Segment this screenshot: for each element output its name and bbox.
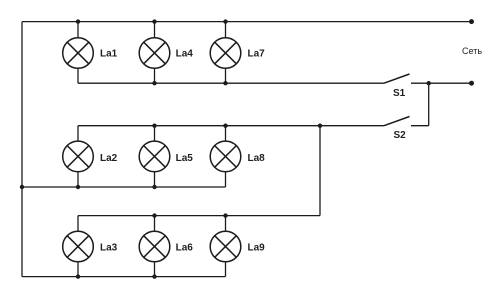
switch S2 — [384, 117, 429, 126]
node top of La6 — [152, 213, 156, 217]
wire La6 leads — [154, 216, 156, 277]
switch S1 — [384, 74, 472, 83]
lamp La5 — [139, 141, 170, 172]
svg-text:La7: La7 — [248, 49, 266, 60]
svg-text:La3: La3 — [100, 243, 118, 254]
wire top bus (net A) — [22, 21, 472, 23]
wire La7 leads — [225, 22, 227, 84]
lamp La6 — [139, 231, 170, 262]
node bottom of La6 — [152, 274, 156, 278]
wire La3 leads — [77, 216, 79, 277]
wire vertical row3-to-S2 — [319, 126, 321, 216]
node row3 branch on S2 bus — [318, 124, 322, 128]
wire La9 leads — [225, 216, 227, 277]
node bottom of La7 — [223, 81, 227, 85]
node bottom of La2 — [76, 185, 80, 189]
node bottom of La4 — [152, 81, 156, 85]
node S1 output junction — [427, 81, 431, 85]
wire La1 leads — [77, 22, 79, 84]
node top of La4 — [152, 19, 156, 23]
svg-text:S1: S1 — [393, 88, 406, 99]
lamp La7 — [210, 38, 241, 69]
svg-text:La9: La9 — [248, 243, 266, 254]
node bottom of La3 — [76, 274, 80, 278]
node top of La8 — [223, 124, 227, 128]
lamp La2 — [63, 141, 94, 172]
node mains terminal top — [469, 19, 474, 24]
svg-text:Сеть: Сеть — [462, 46, 482, 56]
wire row2 bottom bus — [22, 186, 226, 188]
svg-text:La6: La6 — [176, 243, 194, 254]
wire La2 leads — [77, 126, 79, 187]
lamp La8 — [210, 141, 241, 172]
wire row3 top bus — [78, 215, 320, 217]
node left bus row2 — [20, 185, 24, 189]
svg-text:La4: La4 — [176, 49, 194, 60]
node top of La1 — [76, 19, 80, 23]
wire La5 leads — [154, 126, 156, 187]
svg-text:La1: La1 — [100, 49, 118, 60]
svg-text:La8: La8 — [248, 153, 266, 164]
wire La8 leads — [225, 126, 227, 187]
lamp La3 — [63, 231, 94, 262]
lamp La1 — [63, 38, 94, 69]
svg-text:La2: La2 — [100, 153, 118, 164]
wire bottom bus (net A) — [22, 276, 226, 278]
node top of La5 — [152, 124, 156, 128]
node bottom of La5 — [152, 185, 156, 189]
lamp La9 — [210, 231, 241, 262]
wire row2 top bus to S2 — [78, 125, 384, 127]
svg-text:S2: S2 — [394, 130, 407, 141]
wire left vertical bus (net A) — [21, 22, 23, 277]
node mains terminal bottom — [469, 81, 474, 86]
node top of La7 — [223, 19, 227, 23]
wire row1 bottom bus to S1 — [78, 82, 384, 84]
node top of La9 — [223, 213, 227, 217]
svg-text:La5: La5 — [176, 153, 194, 164]
lamp La4 — [139, 38, 170, 69]
wire La4 leads — [154, 22, 156, 84]
wire S2-to-S1 vertical — [428, 83, 430, 126]
